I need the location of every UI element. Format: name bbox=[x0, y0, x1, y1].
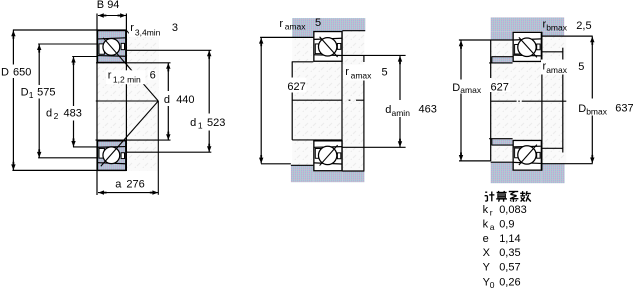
shaft strip upper bbox=[492, 57, 513, 62]
label r 1,2 min 6 bbox=[106, 70, 146, 84]
chamfer leader r12 bbox=[126, 63, 130, 68]
dimension line D_amax 627 bbox=[260, 38, 262, 164]
housing bore line left (vertical) bbox=[490, 40, 492, 78]
svg-text:Y: Y bbox=[483, 262, 491, 274]
bearing left face line (B and a extensions) bbox=[96, 14, 98, 196]
bottom housing left shoulder bbox=[491, 163, 513, 184]
bearing right face line bbox=[541, 32, 543, 171]
d_amin bottom extension bbox=[342, 146, 406, 148]
contact center horizontal line bbox=[96, 100, 159, 102]
svg-text:k: k bbox=[483, 204, 489, 216]
dimension line D_bmax 637 bbox=[591, 37, 593, 99]
bottom housing right low step bbox=[542, 164, 565, 183]
label 627 bbox=[284, 78, 307, 93]
svg-text:r: r bbox=[345, 66, 349, 78]
D1 bottom extension bbox=[38, 157, 97, 159]
svg-text:r: r bbox=[108, 70, 112, 82]
svg-text:r: r bbox=[279, 18, 283, 30]
svg-text:5: 5 bbox=[578, 61, 584, 73]
svg-text:276: 276 bbox=[126, 179, 144, 191]
label D_amax 627 bbox=[451, 80, 485, 94]
shaft shoulder top edge bbox=[291, 164, 313, 166]
svg-text:627: 627 bbox=[287, 81, 305, 93]
svg-text:1: 1 bbox=[198, 120, 203, 130]
svg-text:amax: amax bbox=[351, 71, 373, 81]
drawing 1 hatched background bbox=[97, 30, 159, 171]
shaft slab left shoulder bbox=[291, 165, 313, 182]
d2 top extension bbox=[72, 56, 97, 58]
bearing lower section (white) bbox=[314, 141, 342, 171]
svg-text:0,9: 0,9 bbox=[499, 218, 514, 230]
outside diameter top line (D extension) bbox=[13, 29, 127, 31]
svg-text:bmax: bmax bbox=[586, 106, 608, 116]
D_amax bottom extension bbox=[261, 163, 291, 165]
bearing upper section (outer ring, ball, inner ring) bbox=[98, 31, 126, 63]
svg-text:5: 5 bbox=[382, 66, 388, 78]
svg-text:1,14: 1,14 bbox=[499, 233, 520, 245]
shaft strip upper top edge bbox=[492, 56, 513, 58]
housing bore edge right of bearing bbox=[342, 30, 365, 32]
housing bore line left (vertical) bbox=[291, 61, 293, 78]
svg-text:1,2 min: 1,2 min bbox=[113, 75, 141, 85]
svg-text:D: D bbox=[578, 103, 586, 115]
d_amin top extension bbox=[342, 54, 406, 56]
svg-text:d: d bbox=[164, 94, 170, 106]
left shoulder bottom edge + D_amax extension bbox=[459, 39, 513, 41]
label r_amax 5 bbox=[541, 60, 573, 75]
bottom slab left shoulder top edge bbox=[491, 161, 513, 163]
D1 top extension bbox=[38, 43, 97, 45]
d1 top extension bbox=[126, 49, 211, 51]
bearing lower section (white) bbox=[513, 140, 541, 170]
svg-text:627: 627 bbox=[491, 81, 509, 93]
label d 440 bbox=[163, 93, 195, 105]
svg-text:X: X bbox=[483, 247, 491, 259]
svg-text:bmax: bmax bbox=[546, 22, 568, 32]
center line (axis) bbox=[491, 100, 517, 102]
a dimension line bbox=[98, 192, 158, 194]
svg-text:575: 575 bbox=[37, 86, 55, 98]
bearing upper section (white) bbox=[513, 32, 541, 61]
bottom slab under bearing bbox=[513, 171, 542, 183]
svg-text:0,083: 0,083 bbox=[499, 204, 527, 216]
bearing right face line bbox=[341, 31, 343, 171]
shaft edge vertical right bbox=[562, 48, 564, 62]
dimension line D_amax 627 bbox=[460, 40, 462, 160]
right step top edge bottom + D_bmax extension bbox=[542, 163, 593, 165]
label d_amin 463 bbox=[384, 103, 414, 117]
svg-text:650: 650 bbox=[13, 67, 31, 79]
shaft seat edge right of bearing bbox=[342, 170, 364, 172]
svg-text:D: D bbox=[1, 67, 9, 79]
svg-text:3,4min: 3,4min bbox=[135, 27, 161, 37]
shaft strip lower bbox=[492, 139, 513, 144]
housing shoulder bottom edge + D_amax top extension bbox=[260, 36, 313, 38]
dimension line D 650 bbox=[12, 30, 14, 64]
housing right low step bbox=[542, 31, 565, 36]
svg-text:523: 523 bbox=[207, 117, 225, 129]
shaft strip lower left edge bbox=[491, 139, 493, 145]
shaft slab right part bbox=[342, 171, 364, 182]
d1 bottom extension bbox=[126, 151, 211, 153]
bearing upper section (white) bbox=[314, 32, 342, 62]
chamfer leader r34 bbox=[127, 31, 131, 35]
svg-text:440: 440 bbox=[176, 94, 194, 106]
svg-text:k: k bbox=[483, 218, 489, 230]
svg-text:0,57: 0,57 bbox=[499, 262, 520, 274]
B dimension line bbox=[98, 15, 126, 17]
svg-text:3: 3 bbox=[172, 22, 178, 34]
dimension line D1 575 bbox=[38, 44, 40, 85]
svg-text:amax: amax bbox=[460, 85, 482, 95]
svg-text:483: 483 bbox=[64, 108, 82, 120]
svg-text:d: d bbox=[190, 117, 196, 129]
r_amax extension line upper bbox=[542, 51, 563, 53]
a-dimension extension vertical bbox=[157, 101, 159, 195]
r_amax extension line lower bbox=[542, 147, 563, 149]
svg-text:0,35: 0,35 bbox=[499, 247, 520, 259]
housing block (blue) bbox=[491, 17, 565, 31]
upper bore extension left bbox=[292, 61, 313, 63]
svg-text:e: e bbox=[483, 233, 489, 245]
svg-text:1: 1 bbox=[29, 90, 34, 100]
svg-text:2: 2 bbox=[54, 111, 59, 121]
shaft slab under bearing bbox=[313, 172, 342, 183]
dimension line d2 483 bbox=[73, 57, 75, 106]
shaft/housing edge vertical right bbox=[363, 55, 365, 62]
bore bottom extension (d) bbox=[96, 139, 171, 141]
svg-text:6: 6 bbox=[150, 70, 156, 82]
bearing right face line bbox=[125, 14, 127, 172]
housing left shoulder step bbox=[491, 31, 513, 40]
drawing 3 hatched background bbox=[491, 36, 567, 164]
svg-text:0: 0 bbox=[490, 280, 495, 290]
svg-text:5: 5 bbox=[315, 17, 321, 29]
svg-text:a: a bbox=[115, 179, 122, 191]
contact angle line upper bbox=[103, 38, 158, 101]
label d1 523 bbox=[189, 116, 228, 130]
svg-text:amax: amax bbox=[546, 65, 568, 75]
right step bottom edge + D_bmax extension bbox=[542, 35, 593, 37]
svg-text:r: r bbox=[490, 207, 493, 217]
svg-text:d: d bbox=[46, 108, 52, 120]
housing shoulder step bbox=[292, 31, 313, 37]
outside diameter bottom line (D extension) bbox=[12, 169, 126, 171]
table title (calculation factors, CJK glyphs) bbox=[485, 191, 487, 193]
d2 bottom extension bbox=[73, 146, 97, 148]
svg-text:94: 94 bbox=[107, 0, 119, 11]
svg-text:2,5: 2,5 bbox=[576, 20, 591, 32]
svg-text:a: a bbox=[490, 222, 495, 232]
svg-text:463: 463 bbox=[419, 104, 437, 116]
shaft strip lower top edge bbox=[489, 138, 512, 140]
housing block (blue) bbox=[292, 18, 365, 31]
svg-text:B: B bbox=[97, 0, 104, 11]
svg-text:amin: amin bbox=[392, 108, 411, 118]
D_amax bottom extension bbox=[459, 160, 491, 162]
bearing lower section bbox=[98, 141, 126, 171]
dimension line d 440 bbox=[167, 63, 169, 91]
center line (axis) bbox=[292, 99, 342, 101]
svg-text:D: D bbox=[21, 86, 29, 98]
svg-text:d: d bbox=[385, 104, 391, 116]
label r_amax 5 (shaft) bbox=[344, 65, 378, 81]
dimension line d1 523 bbox=[208, 50, 210, 113]
svg-text:r: r bbox=[130, 22, 134, 34]
lower bore extension left bbox=[292, 139, 342, 141]
svg-text:amax: amax bbox=[285, 21, 307, 31]
shaft strip upper bottom edge bbox=[489, 62, 512, 64]
dimension line d_amin 463 bbox=[399, 56, 401, 100]
bore top extension (d) bbox=[96, 62, 171, 64]
label r 3,4 min 3 bbox=[129, 24, 171, 38]
shaft strip lower bottom edge bbox=[492, 144, 513, 146]
svg-text:D: D bbox=[452, 82, 460, 94]
drawing 2 hatched background bbox=[292, 31, 364, 171]
shaft strip upper left edge bbox=[491, 57, 493, 63]
contact angle line lower bbox=[101, 101, 159, 166]
svg-text:0,26: 0,26 bbox=[499, 276, 520, 288]
svg-text:637: 637 bbox=[615, 103, 633, 115]
